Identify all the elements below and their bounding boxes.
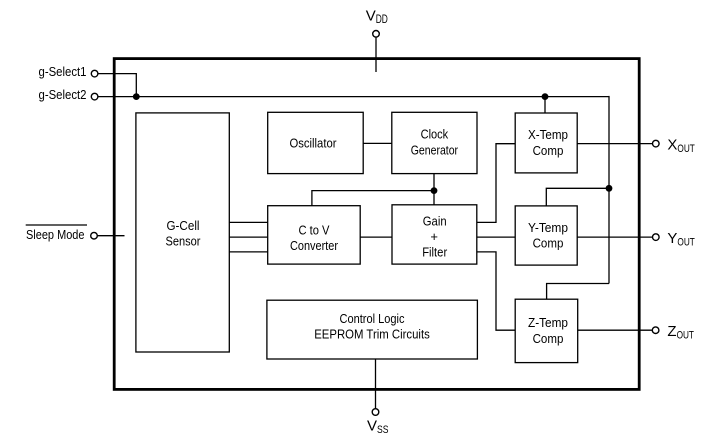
g-Select1 terminal xyxy=(91,70,98,77)
wire Y-Temp output xyxy=(577,236,652,238)
svg-text:Y-Temp: Y-Temp xyxy=(528,220,568,235)
Clock Generator box xyxy=(392,112,477,173)
wire G-Cell to C to V (middle) xyxy=(229,236,267,238)
wire Sleep Mode stub xyxy=(98,235,125,237)
Gain + Filter box xyxy=(392,205,477,264)
junction Y node xyxy=(606,185,613,192)
g-Select2 terminal xyxy=(91,93,98,100)
G-Cell Sensor box xyxy=(136,113,229,352)
XOUT terminal xyxy=(653,140,660,147)
wire Gain to X-Temp xyxy=(477,144,515,223)
junction clock node xyxy=(431,187,438,194)
outer box xyxy=(114,59,639,390)
wire Z-Temp top connector xyxy=(547,284,609,300)
wire Oscillator to Clock Generator xyxy=(363,142,392,144)
Control Logic box xyxy=(267,300,478,359)
svg-text:EEPROM Trim Circuits: EEPROM Trim Circuits xyxy=(314,327,430,342)
svg-text:Comp: Comp xyxy=(533,331,564,346)
svg-text:Clock: Clock xyxy=(421,127,449,142)
Oscillator box xyxy=(268,112,364,173)
wire Gain to Z-Temp xyxy=(477,252,515,330)
wire clock node to Gain xyxy=(433,191,435,205)
wire VDD stub xyxy=(375,37,377,72)
svg-text:g-Select2: g-Select2 xyxy=(39,87,87,102)
Z-Temp Comp box xyxy=(515,299,578,362)
VDD terminal xyxy=(373,31,380,38)
YOUT terminal xyxy=(653,234,660,241)
wire g-Select1 bend down xyxy=(135,73,137,97)
svg-text:Oscillator: Oscillator xyxy=(290,136,338,151)
wire C to V to Gain xyxy=(360,236,392,238)
junction g-Select1/2 xyxy=(133,93,140,100)
wire right vertical to Z xyxy=(608,188,610,283)
VSS terminal xyxy=(372,409,379,416)
svg-text:C to V: C to V xyxy=(299,223,330,238)
svg-text:Sleep Mode: Sleep Mode xyxy=(26,227,85,242)
Sleep Mode overline xyxy=(26,224,87,226)
wire Y-Temp top connector xyxy=(546,188,609,206)
wire X-Temp top stub xyxy=(544,97,546,113)
svg-text:Gain: Gain xyxy=(423,213,447,228)
svg-text:Converter: Converter xyxy=(290,238,339,253)
C to V Converter box xyxy=(268,206,361,264)
wire Z-Temp output xyxy=(578,329,653,331)
svg-text:G-Cell: G-Cell xyxy=(167,218,200,233)
wire Clock Generator bottom stub xyxy=(433,174,435,191)
svg-text:g-Select1: g-Select1 xyxy=(39,64,87,79)
wire VSS stub xyxy=(375,359,377,409)
wire Gain to Y-Temp xyxy=(477,236,515,238)
wire clock node to C to V xyxy=(312,191,434,206)
svg-text:Control Logic: Control Logic xyxy=(340,311,405,326)
wire X-Temp output xyxy=(577,143,652,145)
svg-text:Comp: Comp xyxy=(533,236,564,251)
svg-text:X-Temp: X-Temp xyxy=(528,127,568,142)
wire g-Select2 bus xyxy=(98,96,609,98)
svg-text:Generator: Generator xyxy=(411,143,459,158)
junction bus/X-Temp xyxy=(542,93,549,100)
svg-text:Sensor: Sensor xyxy=(166,234,202,249)
wire g-Select1 horizontal xyxy=(98,73,136,75)
svg-text:+: + xyxy=(430,229,438,244)
wire G-Cell to C to V (bottom) xyxy=(229,251,267,253)
wire G-Cell to C to V (top) xyxy=(229,221,267,223)
svg-text:Comp: Comp xyxy=(533,143,564,158)
X-Temp Comp box xyxy=(515,113,577,173)
svg-text:Filter: Filter xyxy=(422,244,448,259)
wire bus right vertical xyxy=(608,96,610,188)
svg-text:Z-Temp: Z-Temp xyxy=(528,315,568,330)
Y-Temp Comp box xyxy=(515,206,577,265)
Sleep Mode terminal xyxy=(91,232,98,239)
ZOUT terminal xyxy=(652,327,659,334)
